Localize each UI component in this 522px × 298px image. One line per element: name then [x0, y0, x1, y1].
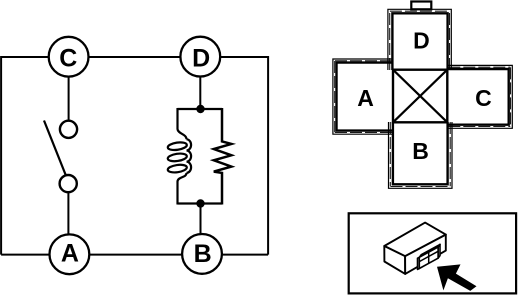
- connector pinout: hatching in cavity A border gap: [335, 61, 392, 133]
- wire: parallel-branch bottom bar: [178, 202, 223, 204]
- relay body: front face: [405, 235, 446, 274]
- svg-text:D: D: [413, 28, 430, 54]
- connector pinout: hatching in cavity C border gap: [448, 67, 510, 126]
- coil L1 (relay coil, left branch): [167, 108, 191, 205]
- wire: right rail: [267, 56, 269, 255]
- relay connector block: terminal divider vertical: [428, 252, 430, 263]
- connector pinout: hatching in cavity D border gap: [390, 11, 450, 70]
- connector pinout: cavity B outer border: [389, 122, 453, 188]
- relay connector block: left end face: [418, 257, 420, 269]
- wire: switch lower contact down to terminal A: [67, 188, 69, 253]
- connector pinout: center keyway square: [393, 70, 447, 123]
- svg-text:C: C: [475, 85, 492, 111]
- terminal A: [50, 234, 90, 274]
- connector pinout: hatching in cavity B border gap: [390, 122, 450, 187]
- connector pinout: cavity C inner border: [447, 69, 508, 125]
- terminal B: [182, 234, 222, 274]
- connector pinout: cavity A outer border: [333, 59, 393, 134]
- connector pinout: index tab on top of cavity D: [411, 2, 431, 10]
- node: top junction dot: [196, 105, 204, 113]
- connector pinout: cavity D inner border: [392, 13, 447, 70]
- connector pinout: keyway X diagonal 2: [393, 70, 447, 123]
- wire: left rail: [0, 56, 2, 255]
- connector pinout: cavity A inner border: [337, 63, 394, 131]
- terminal C: [49, 37, 89, 77]
- svg-text:B: B: [412, 138, 429, 164]
- relay connector block: terminal divider horizontal: [419, 251, 438, 261]
- wire: terminal D down to top junction: [199, 58, 201, 109]
- node: bottom junction dot: [196, 199, 204, 207]
- terminal D: [180, 37, 220, 77]
- arrow pointing at relay connector: [437, 264, 477, 291]
- wire: bottom bus from left rail through A and B to right rail: [1, 254, 268, 256]
- connector pinout: cavity D outer border: [388, 9, 451, 70]
- relay connector block: right face: [438, 244, 440, 258]
- svg-text:C: C: [59, 45, 77, 73]
- wire: parallel-branch top bar: [178, 108, 223, 110]
- svg-text:D: D: [192, 44, 210, 72]
- wire: bottom junction down to terminal B: [200, 204, 202, 253]
- relay connector block: top face: [419, 244, 440, 257]
- wire: terminal C down to switch upper contact: [68, 58, 70, 125]
- svg-text:A: A: [357, 85, 374, 111]
- wire: top bus from left rail through C and D to right rail: [1, 56, 268, 58]
- switch S1 blade (open): [44, 121, 66, 175]
- switch S1 upper contact: [60, 121, 77, 138]
- connector pinout: cavity C outer border: [447, 65, 512, 128]
- inset frame around relay icon: [349, 213, 516, 293]
- relay connector block: front face with terminal grid: [419, 247, 438, 269]
- svg-text:A: A: [61, 240, 79, 268]
- connector pinout: keyway X diagonal 1: [393, 70, 447, 123]
- connector pinout: cavity B inner border: [393, 122, 448, 184]
- relay body: left face: [384, 246, 405, 274]
- svg-text:B: B: [194, 240, 212, 268]
- relay body: top face: [384, 223, 446, 257]
- resistor R1 (right branch): [214, 108, 232, 205]
- switch S1 lower contact: [60, 175, 77, 192]
